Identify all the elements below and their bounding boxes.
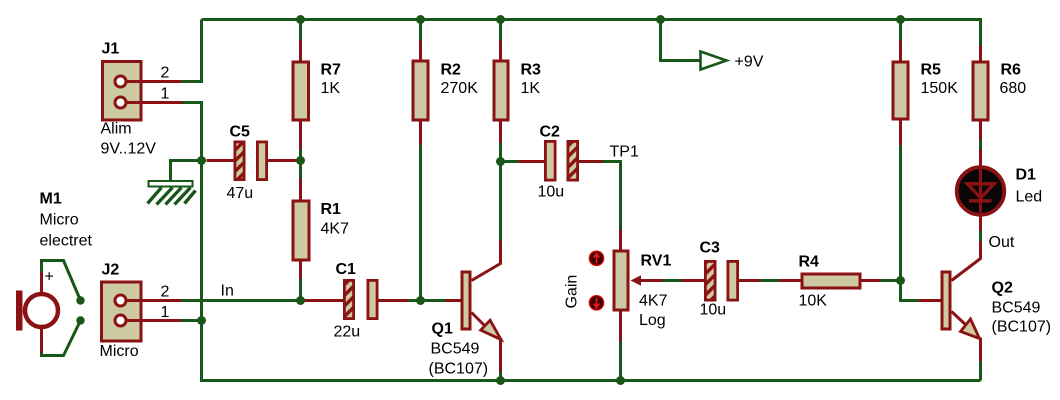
svg-text:Micro: Micro (100, 343, 139, 360)
svg-text:R5: R5 (921, 62, 942, 79)
svg-text:R3: R3 (521, 62, 542, 79)
svg-text:4K7: 4K7 (321, 221, 350, 238)
transistor Q2 emitter diagonal (952, 312, 967, 326)
svg-text:Q2: Q2 (992, 280, 1013, 297)
node: M1 terminal + (76, 296, 84, 304)
lead: RV1 top (red) (619, 230, 622, 251)
svg-text:1K: 1K (521, 80, 541, 97)
connector J2 pin 2 lead (125, 299, 182, 302)
resistor R4 (802, 274, 860, 288)
lead: R4 left (red) (780, 279, 802, 282)
lead: Q1 emitter vertical (red) (499, 339, 502, 372)
potentiometer RV1 cw arrow up (594, 254, 600, 264)
wire: node to R1 top (299, 161, 302, 179)
ground symbol hatch 3 (166, 188, 182, 205)
lead: R5 bottom (red) (899, 121, 902, 146)
lead: R1 top (red) (299, 179, 302, 201)
lead: LED top (red) (979, 149, 982, 169)
svg-text:C1: C1 (336, 261, 357, 278)
lead: C3 left (red) (682, 279, 706, 282)
wire: R6 to LED green segment (979, 140, 982, 150)
microphone M1 capsule circle (25, 294, 58, 327)
svg-text:47u: 47u (227, 185, 254, 202)
wire: R7 top lead green (299, 20, 302, 43)
svg-text:BC549: BC549 (992, 300, 1041, 317)
svg-text:9V..12V: 9V..12V (101, 141, 157, 158)
svg-text:R6: R6 (1001, 62, 1022, 79)
ground symbol bar (149, 181, 193, 187)
connector J1 pin 1 lead (125, 101, 183, 104)
wire: left ground bus from J1 pin1 down (183, 103, 202, 381)
lead: R3 bottom (red) (499, 122, 502, 143)
wire: C3 to R4 (761, 279, 781, 282)
wire: node to Q2 base (901, 281, 920, 301)
potentiometer RV1 ccw indicator dot (589, 296, 603, 310)
svg-text:J2: J2 (102, 262, 120, 279)
wire: J1 pin2 to +V rail riser (182, 20, 202, 82)
wire: R6 top lead (green part) (979, 18, 982, 48)
svg-text:Gain: Gain (564, 275, 581, 309)
node: R2 Q1 base (416, 296, 425, 305)
power symbol +9V branch wire (661, 20, 701, 61)
node: rail R3 (496, 15, 505, 24)
lead: Q2 base (red) (919, 299, 941, 302)
lead: M1 bottom (red) (40, 327, 43, 354)
ground symbol hatch 1 (148, 188, 162, 204)
svg-text:Alim: Alim (101, 121, 132, 138)
wire: R7 bottom to node (299, 150, 302, 161)
connector J2 pin 2 circle (115, 295, 126, 306)
svg-text:Q1: Q1 (432, 321, 453, 338)
svg-text:In: In (221, 283, 234, 300)
svg-text:C5: C5 (230, 124, 251, 141)
svg-text:Led: Led (1016, 189, 1043, 206)
svg-text:C2: C2 (540, 124, 561, 141)
node: R4 R5 Q2 base (896, 276, 905, 285)
svg-text:10u: 10u (700, 302, 727, 319)
wire: Q1 emitter to ground rail (499, 372, 502, 381)
capacitor C5 negative plate (hatched) (235, 142, 244, 180)
wire: In net from J2 pin2 to R1 node (182, 299, 301, 302)
svg-text:+: + (45, 269, 54, 286)
lead: M1 top (red) (40, 272, 43, 295)
wire: RV1 wiper to C3 (663, 279, 683, 282)
node: rail R2 (416, 15, 425, 24)
svg-text:2: 2 (161, 65, 170, 82)
lead: C2 left (red) (519, 160, 546, 163)
svg-text:22u: 22u (334, 324, 361, 341)
lead: Q2 emitter vertical (red) (979, 338, 982, 362)
svg-text:BC549: BC549 (431, 341, 480, 358)
connector J2 body (102, 282, 142, 341)
potentiometer RV1 wiper arrow (631, 275, 642, 285)
wire: R4 to R5 node (881, 279, 901, 282)
connector J1 pin 1 circle (115, 97, 126, 108)
node: C5 R7 R1 (296, 156, 305, 165)
svg-text:+9V: +9V (735, 54, 764, 71)
wire: R2 bottom to base node (419, 145, 422, 301)
wire: R3 top lead green (499, 20, 502, 43)
connector J1 pin 2 lead (125, 80, 182, 83)
ground symbol hatch 2 (157, 188, 173, 205)
wire: Out net green segment (979, 230, 982, 242)
svg-text:Out: Out (989, 234, 1015, 251)
ground symbol hatch 4 (175, 188, 191, 205)
diode D1 triangle (967, 184, 994, 198)
capacitor C1 negative plate (hatched) (344, 280, 353, 318)
svg-text:1K: 1K (321, 80, 341, 97)
node: ground bus J2 pin1 (197, 316, 206, 325)
lead: C3 right (red) (739, 279, 762, 282)
svg-text:Log: Log (639, 312, 666, 329)
lead: C5 right (red) (268, 159, 297, 162)
potentiometer RV1 ccw arrow down (594, 298, 600, 308)
resistor R3 (494, 61, 508, 120)
lead: R3 top (red) (499, 41, 502, 62)
svg-text:(BC107): (BC107) (429, 361, 489, 378)
node: rail R7 (296, 15, 305, 24)
transistor Q2 base bar (942, 272, 950, 329)
node: R3 C2 Q1 collector (496, 157, 505, 166)
wire: J2 pin1 to ground bus (182, 319, 202, 322)
svg-text:C3: C3 (700, 240, 721, 257)
wire: C1 to R2 node (409, 299, 421, 302)
lead: R4 right (red) (862, 279, 882, 282)
lead: Q1 collector vertical (red) (499, 241, 502, 265)
node: RV1 ground (616, 376, 625, 385)
svg-text:1: 1 (161, 86, 170, 103)
diode D1 cathode bar (969, 199, 992, 202)
svg-text:RV1: RV1 (641, 253, 672, 270)
wire: R1 bottom to In node (299, 279, 302, 301)
wire: R5 top lead green (899, 20, 902, 43)
potentiometer RV1 body (614, 251, 628, 310)
svg-text:R7: R7 (321, 62, 342, 79)
lead: RV1 wiper (red) (641, 279, 664, 282)
node: rail R5 (896, 15, 905, 24)
resistor R2 (413, 61, 428, 120)
lead: R7 top (red) (299, 41, 302, 62)
lead: R2 bottom (red) (419, 122, 422, 145)
lead: R6 top (red) (979, 46, 982, 62)
wire: R5 bottom to R4 node (899, 146, 902, 281)
lead: LED bottom (red) (979, 215, 982, 231)
diode D1 LED body (957, 167, 1005, 215)
wire: Q1 collector to R3 node (499, 162, 502, 241)
svg-text:10u: 10u (538, 184, 565, 201)
diode D1 anode line (979, 170, 982, 213)
capacitor C2 positive plate (545, 141, 555, 180)
resistor R7 (293, 62, 309, 120)
microphone M1 body bar (16, 291, 23, 331)
capacitor C5 positive plate (257, 142, 266, 180)
connector J2 pin 1 lead (125, 319, 183, 322)
node: rail +9V branch (656, 15, 665, 24)
transistor Q1 base bar (462, 272, 470, 329)
capacitor C2 negative plate (hatched) (568, 141, 578, 180)
potentiometer RV1 cw indicator dot (589, 251, 603, 265)
lead: C5 left (red) (207, 159, 235, 162)
transistor Q1 emitter diagonal (472, 313, 487, 328)
lead: R1 bottom (red) (299, 262, 302, 279)
lead: Q1 base (red) (446, 299, 461, 302)
svg-text:(BC107): (BC107) (992, 319, 1052, 336)
svg-text:R2: R2 (441, 62, 462, 79)
wire: C2 node stub (501, 160, 521, 163)
power symbol +9V arrow (701, 52, 727, 70)
transistor Q2 emitter arrow (961, 319, 980, 339)
svg-text:TP1: TP1 (610, 144, 639, 161)
wire: R2 top lead green (419, 20, 422, 43)
node: In R1 C1 (296, 296, 305, 305)
svg-text:M1: M1 (40, 191, 62, 208)
lead: R7 bottom (red) (299, 122, 302, 150)
connector J1 body (103, 62, 142, 121)
node: ground bus C5 (197, 156, 206, 165)
resistor R1 (293, 201, 309, 260)
node: Q1 emitter ground (496, 376, 505, 385)
transistor Q1 emitter arrow (481, 320, 501, 339)
svg-text:D1: D1 (1016, 167, 1037, 184)
wire: C2 to TP1 corner down to RV1 (603, 162, 621, 232)
wire: R3 bottom to C2 node (499, 143, 502, 162)
resistor R5 (893, 62, 908, 119)
svg-text:R4: R4 (799, 254, 820, 271)
capacitor C3 positive plate (728, 261, 738, 300)
lead: R5 top (red) (899, 41, 902, 62)
svg-text:4K7: 4K7 (639, 293, 668, 310)
wire: Q2 emitter to ground rail (green part) (979, 361, 982, 381)
ground symbol hatch 5 (185, 191, 196, 204)
wire: ground branch (171, 161, 202, 182)
svg-text:150K: 150K (921, 80, 959, 97)
lead: C2 right (red) (579, 160, 603, 163)
lead: RV1 bottom (red) (619, 312, 622, 342)
transistor Q1 collector diagonal (472, 264, 501, 281)
svg-text:10K: 10K (799, 293, 828, 310)
lead: C1 right (red) (379, 299, 409, 302)
svg-text:680: 680 (1000, 80, 1027, 97)
connector J2 pin 1 circle (115, 315, 126, 326)
wire: RV1 bottom to ground rail (619, 342, 622, 381)
lead: Q2 collector vertical (red) (979, 242, 982, 260)
node: M1 terminal - (76, 316, 84, 324)
transistor Q2 collector diagonal (952, 259, 981, 281)
svg-text:2: 2 (161, 284, 170, 301)
wire: M1 bottom lead to terminal (42, 321, 81, 356)
svg-text:270K: 270K (441, 80, 479, 97)
svg-text:electret: electret (40, 233, 93, 250)
wire: +9V top rail (202, 18, 981, 21)
wire: M1 top lead to terminal (42, 261, 81, 301)
lead: C1 left (red) (304, 299, 344, 302)
capacitor C1 positive plate (368, 280, 377, 318)
svg-text:1: 1 (161, 304, 170, 321)
resistor R6 (973, 62, 988, 120)
lead: R2 top (red) (419, 41, 422, 62)
lead: R6 bottom (red) (979, 122, 982, 140)
wire: bottom ground rail (200, 379, 981, 382)
svg-text:R1: R1 (321, 201, 342, 218)
svg-text:J1: J1 (102, 41, 120, 58)
wire: base node to Q1 base (421, 299, 448, 302)
capacitor C3 negative plate (hatched) (705, 261, 715, 300)
svg-text:Micro: Micro (40, 212, 79, 229)
connector J1 pin 2 circle (115, 76, 126, 87)
